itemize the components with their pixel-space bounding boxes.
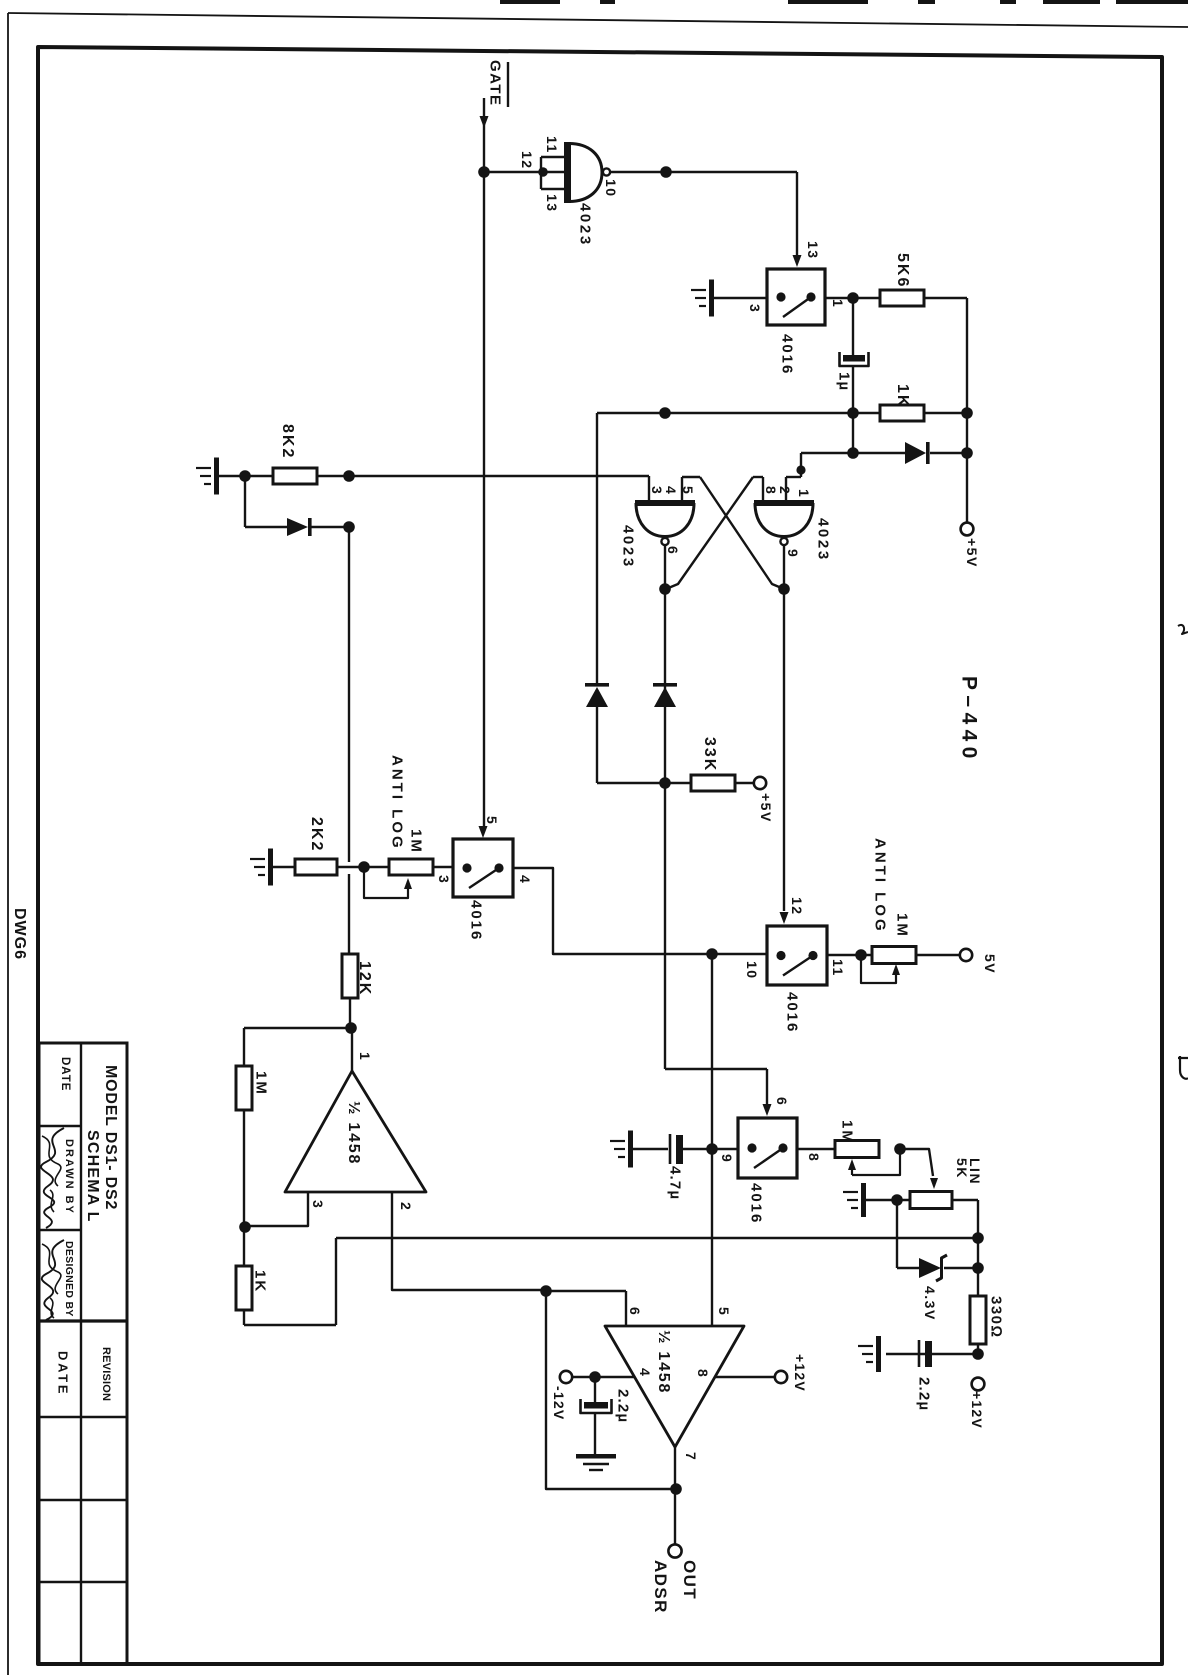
- svg-text:1: 1: [796, 489, 812, 498]
- svg-text:+12V: +12V: [792, 1354, 808, 1392]
- svg-text:12: 12: [519, 151, 535, 170]
- svg-text:DRAWN BY: DRAWN BY: [63, 1139, 75, 1215]
- svg-text:13: 13: [805, 241, 821, 260]
- svg-text:2.2µ: 2.2µ: [916, 1377, 933, 1411]
- svg-text:ADSR: ADSR: [651, 1560, 670, 1614]
- svg-text:1µ: 1µ: [836, 372, 853, 391]
- svg-text:6: 6: [627, 1307, 643, 1316]
- svg-text:-12V: -12V: [551, 1386, 567, 1420]
- svg-text:33K: 33K: [701, 737, 718, 772]
- svg-text:1: 1: [830, 299, 846, 308]
- svg-text:13: 13: [544, 194, 560, 213]
- svg-text:7: 7: [683, 1452, 699, 1461]
- svg-text:P–440: P–440: [957, 676, 980, 764]
- svg-text:4: 4: [517, 875, 533, 884]
- svg-text:4016: 4016: [779, 334, 796, 375]
- svg-text:1: 1: [357, 1052, 373, 1061]
- svg-text:8: 8: [806, 1153, 822, 1162]
- svg-text:DATE: DATE: [55, 1351, 70, 1396]
- svg-text:3: 3: [310, 1200, 326, 1209]
- svg-text:5: 5: [716, 1307, 732, 1316]
- svg-text:DATE: DATE: [59, 1057, 71, 1091]
- svg-text:+5V: +5V: [758, 793, 774, 823]
- svg-text:SCHEMA L: SCHEMA L: [84, 1130, 101, 1223]
- svg-text:2K2: 2K2: [308, 817, 325, 852]
- svg-text:10: 10: [603, 179, 619, 198]
- svg-text:10: 10: [744, 961, 760, 980]
- svg-text:8K2: 8K2: [279, 424, 296, 459]
- svg-text:ANTI LOG: ANTI LOG: [389, 755, 406, 851]
- svg-text:1K: 1K: [252, 1270, 269, 1293]
- svg-text:11: 11: [830, 959, 846, 977]
- svg-text:9: 9: [785, 549, 801, 558]
- svg-text:GATE: GATE: [487, 60, 504, 107]
- svg-text:4016: 4016: [784, 992, 801, 1033]
- svg-text:LIN: LIN: [967, 1158, 983, 1185]
- svg-text:8: 8: [695, 1369, 711, 1378]
- svg-text:DWG6: DWG6: [11, 908, 28, 960]
- svg-text:4023: 4023: [620, 525, 637, 569]
- svg-text:1K: 1K: [894, 384, 911, 408]
- svg-text:3: 3: [436, 875, 452, 884]
- svg-text:12K: 12K: [356, 961, 373, 996]
- svg-text:330Ω: 330Ω: [988, 1296, 1005, 1339]
- svg-text:MODEL DS1- DS2: MODEL DS1- DS2: [102, 1065, 119, 1210]
- svg-text:6: 6: [665, 546, 681, 555]
- svg-text:12: 12: [789, 897, 805, 916]
- svg-text:½ 1458: ½ 1458: [345, 1101, 362, 1165]
- svg-text:2: 2: [398, 1202, 414, 1211]
- svg-text:1M: 1M: [253, 1071, 270, 1096]
- svg-text:+5V: +5V: [964, 538, 980, 568]
- svg-text:1M: 1M: [408, 829, 425, 854]
- svg-text:9: 9: [719, 1154, 735, 1163]
- svg-text:6: 6: [774, 1097, 790, 1106]
- svg-text:1M: 1M: [839, 1120, 856, 1145]
- svg-text:4.7µ: 4.7µ: [667, 1166, 684, 1200]
- svg-text:2.2µ: 2.2µ: [615, 1389, 632, 1423]
- svg-text:4.3V: 4.3V: [922, 1286, 938, 1321]
- svg-text:3: 3: [747, 304, 763, 313]
- svg-text:ANTI LOG: ANTI LOG: [872, 838, 889, 934]
- svg-text:4023: 4023: [815, 518, 832, 562]
- svg-text:4016: 4016: [748, 1183, 765, 1224]
- svg-text:4: 4: [663, 486, 679, 495]
- svg-text:5V: 5V: [982, 954, 998, 974]
- svg-text:+12V: +12V: [969, 1391, 985, 1429]
- svg-text:DESIGNED BY: DESIGNED BY: [63, 1241, 75, 1317]
- svg-text:11: 11: [544, 136, 560, 154]
- svg-text:REVISION: REVISION: [100, 1347, 112, 1401]
- svg-text:½ 1458: ½ 1458: [655, 1330, 672, 1394]
- svg-text:1M: 1M: [894, 913, 911, 938]
- svg-text:OUT: OUT: [680, 1560, 699, 1600]
- svg-text:5: 5: [484, 816, 500, 825]
- svg-text:8: 8: [763, 486, 779, 495]
- svg-text:5K6: 5K6: [894, 253, 911, 288]
- svg-text:3: 3: [649, 486, 665, 495]
- svg-text:4016: 4016: [468, 900, 485, 941]
- svg-text:4: 4: [637, 1368, 653, 1377]
- svg-text:4023: 4023: [577, 203, 594, 247]
